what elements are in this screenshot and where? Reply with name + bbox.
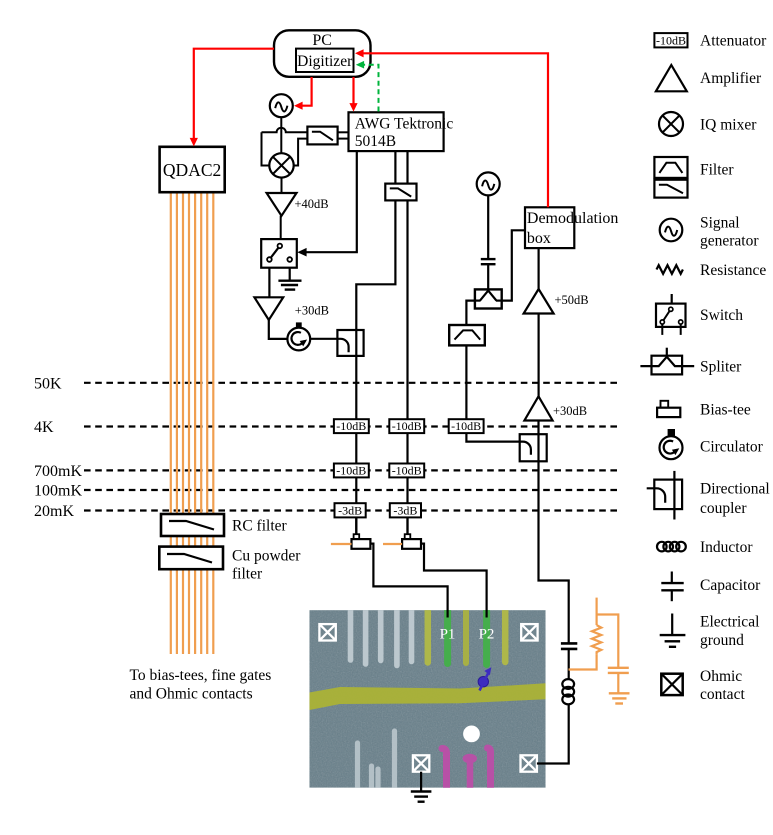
svg-text:P2: P2 (479, 627, 495, 643)
legend: inductor (657, 539, 753, 556)
svg-text:-3dB: -3dB (338, 503, 362, 517)
filter F3 box (band-pass) (449, 325, 485, 345)
wire: left bracket to mixer (262, 132, 270, 165)
magenta gates (bottom) (442, 748, 491, 790)
legend: filter (band-pass box) (654, 157, 687, 178)
wire: SG2 down through capacitor C1 to splitter (487, 195, 489, 259)
wire: red PC to AWG (349, 77, 357, 112)
wire: I line with hop to filter F1 (262, 128, 308, 133)
svg-text:filter: filter (232, 566, 263, 583)
svg-text:generator: generator (700, 233, 759, 250)
temperature stage line 100mK (34, 483, 622, 500)
IQ mixer M1 (269, 153, 293, 177)
ohmic contact (SEM top-right) (521, 624, 537, 640)
wire: +40dB amp to switch (280, 216, 282, 244)
wire: red Demodulation box to Digitizer (355, 49, 548, 207)
svg-text:QDAC2: QDAC2 (163, 160, 221, 180)
svg-text:To bias-tees, fine gates: To bias-tees, fine gates (130, 667, 272, 684)
svg-text:IQ mixer: IQ mixer (700, 117, 757, 134)
spin qubit arrow (blue) (478, 667, 491, 690)
svg-text:Cu powder: Cu powder (232, 548, 301, 565)
svg-text:box: box (527, 230, 551, 247)
wire: SG1 to mixer LO (280, 117, 282, 153)
legend: circulator (660, 429, 764, 459)
legend: amplifier (656, 65, 762, 91)
svg-text:RC filter: RC filter (232, 518, 288, 535)
splitter SP1 (475, 289, 502, 308)
accumulation channel stripe (olive) (309, 683, 545, 710)
Digitizer box (296, 49, 354, 72)
wire: red PC to SG1 (294, 77, 312, 110)
svg-text:-10dB: -10dB (336, 419, 366, 433)
temperature stage line 700mK (34, 463, 622, 480)
svg-text:Signal: Signal (700, 215, 740, 232)
attenuator -10dB column2 4K (389, 419, 424, 433)
svg-text:Demodulation: Demodulation (527, 210, 619, 227)
legend: capacitor (661, 572, 761, 602)
temperature stage line 20mK (34, 503, 622, 520)
wire: AWG ch2 column2 (406, 151, 408, 534)
bias-tee BT2 (383, 517, 421, 548)
attenuator -10dB column1 4K (334, 419, 369, 433)
QDAC2 box (160, 147, 225, 192)
svg-text:and Ohmic contacts: and Ohmic contacts (130, 686, 253, 703)
wire: switch left contact to +30dB amp (268, 262, 270, 298)
sample SEM micrograph (309, 608, 545, 790)
plunger gates P1 P2 (green) (448, 608, 487, 665)
svg-text:PC: PC (312, 32, 332, 49)
resistor R1 (orange) (592, 625, 601, 655)
legend: resistance (657, 262, 767, 279)
wire: mixer right bracket to filter F1 (294, 139, 308, 166)
text: loom destination (130, 667, 272, 703)
filter F2 box (low-pass, AWG outputs) (385, 184, 416, 201)
svg-text:Electrical: Electrical (700, 613, 759, 630)
wire: -10dB col3 to DC2 (466, 433, 519, 442)
svg-text:-10dB: -10dB (451, 419, 481, 433)
wire: bottom ohmic to ground (420, 772, 422, 792)
svg-text:coupler: coupler (700, 500, 747, 517)
wire: splitter left output to band-pass filter F3 (466, 301, 475, 325)
electrical ground (below sample) (411, 792, 432, 802)
svg-text:700mK: 700mK (34, 463, 82, 480)
wire: BT1 to gate P1 (370, 544, 447, 618)
svg-text:Circulator: Circulator (700, 438, 764, 455)
Cu powder filter box (159, 547, 301, 583)
Demodulation box (525, 207, 618, 248)
wire: L1 down to ohmic contact (537, 704, 569, 764)
wire: F1 to AWG pair (338, 132, 349, 138)
svg-text:ground: ground (700, 632, 744, 649)
directional coupler DC1 box (337, 330, 363, 356)
svg-text:-10dB: -10dB (336, 464, 366, 478)
legend: splitter (640, 348, 742, 376)
svg-text:Switch: Switch (700, 307, 743, 324)
wire: circulator to DC1 (310, 338, 337, 340)
svg-text:Ohmic: Ohmic (700, 668, 742, 685)
svg-text:100mK: 100mK (34, 483, 82, 500)
AWG Tektronic 5014B box (349, 112, 454, 151)
temperature stage line 50K (34, 375, 622, 392)
amplifier +30dB (readout) (524, 396, 587, 420)
wire: splitter right output to demodulation box (502, 230, 525, 300)
wire: red PC to QDAC2 (190, 49, 274, 147)
signal generator SG1 (270, 94, 293, 117)
wire: AWG ch-marker to switch (arrow) (297, 151, 357, 256)
svg-text:+50dB: +50dB (555, 293, 589, 307)
wire: switch right contact to ground (289, 262, 291, 281)
RC filter box (161, 514, 288, 536)
capacitor C3 (orange) (608, 668, 629, 673)
legend: attenuator (654, 33, 767, 50)
white circle marker (463, 726, 480, 743)
wire: F3 down to -10dB col3 (465, 345, 467, 419)
attenuator -3dB column1 20mK (335, 503, 366, 517)
svg-text:AWG Tektronic: AWG Tektronic (355, 115, 454, 132)
gray gates (bottom) (358, 731, 395, 790)
wire: C2 to inductor L1 (568, 649, 570, 680)
attenuator -10dB column1 700mK (334, 464, 369, 478)
wire: green dashed AWG to Digitizer (356, 61, 379, 112)
wire: +50dB amp to +30dB amp (537, 313, 539, 396)
wire: +30dB amp through DC2 down to sample tank circuit (539, 420, 569, 643)
svg-text:Resistance: Resistance (700, 262, 766, 279)
directional coupler DC2 box (520, 434, 547, 461)
svg-text:-10dB: -10dB (392, 464, 422, 478)
legend: signal generator (660, 215, 760, 250)
attenuator -10dB column3 4K (449, 419, 484, 433)
wire: +30dB amp to circulator (269, 320, 287, 339)
capacitor C1 (481, 259, 496, 264)
filter F1 box (low-pass, IQ lines) (307, 127, 337, 145)
ground (below switch) (278, 281, 301, 290)
svg-text:contact: contact (700, 686, 745, 703)
legend: ohmic contact (661, 668, 745, 703)
amplifier +30dB (254, 297, 329, 320)
svg-text:Digitizer: Digitizer (297, 53, 353, 70)
svg-text:-10dB: -10dB (656, 33, 686, 47)
temperature stage line 4K (34, 419, 622, 436)
legend: IQ mixer (659, 112, 757, 136)
circulator (287, 322, 310, 350)
svg-text:4K: 4K (34, 419, 54, 436)
svg-text:Bias-tee: Bias-tee (700, 402, 751, 419)
switch SW1 (261, 239, 297, 268)
PC box (274, 30, 371, 77)
inductor L1 (562, 679, 574, 704)
svg-text:+30dB: +30dB (295, 304, 329, 318)
ohmic contact (SEM bottom-right) (521, 755, 537, 771)
svg-text:Amplifier: Amplifier (700, 70, 762, 87)
wire: BT2 to gate P2 (421, 544, 487, 618)
legend: switch (656, 294, 743, 335)
legend: filter (low-pass box) (654, 161, 734, 197)
svg-text:50K: 50K (34, 375, 62, 392)
svg-text:Filter: Filter (700, 161, 734, 178)
amplifier +40dB (267, 193, 329, 216)
svg-text:5014B: 5014B (355, 133, 396, 150)
bias-tee BT1 (331, 517, 371, 548)
legend: electrical ground (660, 613, 760, 649)
svg-text:20mK: 20mK (34, 503, 74, 520)
svg-text:P1: P1 (440, 627, 456, 643)
QDAC2 loom (orange DC lines) (171, 192, 214, 654)
attenuator -10dB column2 700mK (389, 464, 424, 478)
svg-text:-10dB: -10dB (392, 419, 422, 433)
attenuator -3dB column2 20mK (390, 503, 421, 517)
legend: directional coupler (647, 471, 770, 520)
svg-text:Directional: Directional (700, 481, 770, 498)
ohmic contact (SEM top-left) (319, 624, 335, 640)
olive gates (top) (428, 608, 505, 663)
svg-text:Spliter: Spliter (700, 359, 742, 376)
wire: AWG ch1 through F2, jog to column1 through DC1 and attenuators (356, 151, 395, 534)
svg-text:Inductor: Inductor (700, 539, 753, 556)
amplifier +50dB (524, 289, 589, 314)
legend: bias-tee (657, 401, 751, 419)
wire: demod box to +50dB amp (537, 248, 539, 289)
svg-text:Capacitor: Capacitor (700, 577, 761, 594)
signal generator SG2 (477, 172, 500, 195)
svg-text:+30dB: +30dB (553, 404, 587, 418)
wire: mixer to +40dB amp (281, 178, 283, 194)
orange matching network wires (569, 598, 619, 694)
gray gates (top) (351, 608, 412, 666)
electrical ground (orange) (609, 693, 630, 703)
svg-text:-3dB: -3dB (393, 503, 417, 517)
capacitor C2 (black, tank) (561, 643, 577, 649)
svg-text:+40dB: +40dB (295, 197, 329, 211)
svg-text:Attenuator: Attenuator (700, 33, 767, 50)
ohmic contact (SEM bottom-middle) (413, 755, 429, 771)
